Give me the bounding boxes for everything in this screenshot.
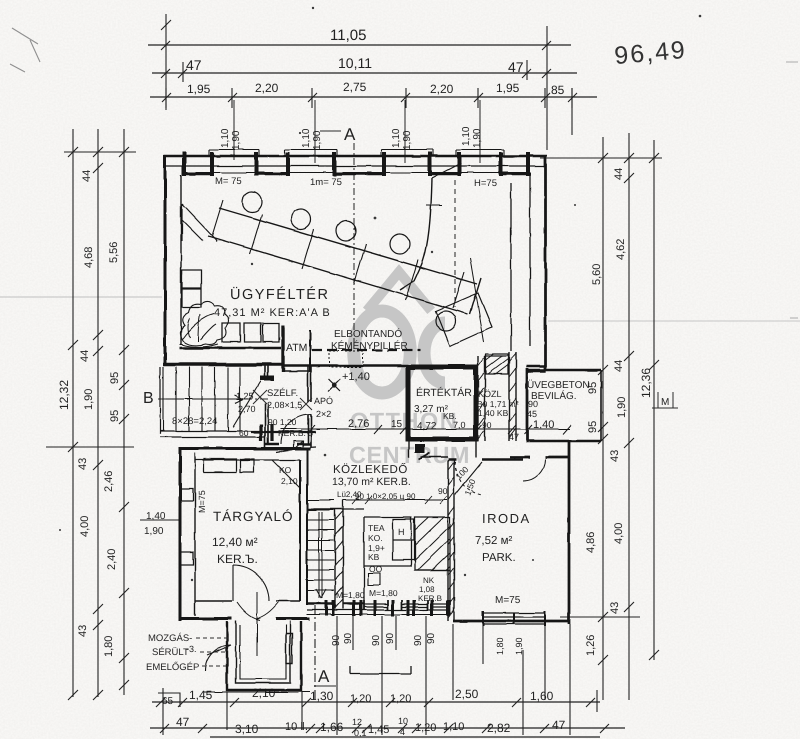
tick row y158 — [540, 157, 662, 159]
edge marks right — [786, 62, 798, 318]
svg-text:2×2: 2×2 — [316, 409, 331, 419]
stair arrow — [316, 589, 326, 598]
svg-text:1m= 75: 1m= 75 — [310, 177, 342, 188]
svg-text:90: 90 — [385, 632, 396, 644]
svg-text:1,45: 1,45 — [368, 724, 389, 736]
svg-text:1,95: 1,95 — [496, 81, 520, 95]
ticks x124 — [119, 345, 129, 663]
mid dim line y429 — [281, 428, 570, 430]
dim line 10,11 — [152, 72, 577, 74]
svg-text:1,80: 1,80 — [103, 636, 115, 657]
svg-text:4,72: 4,72 — [417, 421, 437, 432]
svg-text:65: 65 — [162, 696, 174, 707]
svg-text:12,32: 12,32 — [57, 380, 71, 410]
desk parallelogram — [436, 293, 492, 346]
tick row y617 — [560, 616, 640, 618]
wc room hatched — [415, 517, 450, 570]
right wall bottom step — [526, 366, 546, 371]
svg-text:2,10: 2,10 — [281, 476, 298, 486]
svg-text:11,05: 11,05 — [330, 27, 366, 44]
targyalo right wall — [300, 448, 307, 605]
left chain verticals — [73, 129, 124, 697]
svg-text:1,08: 1,08 — [419, 585, 435, 594]
svg-text:TÁRGYALÓ: TÁRGYALÓ — [213, 509, 294, 524]
svg-text:47: 47 — [509, 432, 519, 442]
window dim verticals — [234, 100, 480, 163]
svg-text:KÖZL: KÖZL — [478, 389, 502, 399]
svg-text:2,46: 2,46 — [103, 471, 115, 492]
svg-text:10 ‖.: 10 ‖. — [285, 721, 308, 733]
szelf room walls — [265, 366, 268, 447]
iroda left wall hatched — [448, 460, 454, 621]
svg-text:1,40: 1,40 — [533, 419, 554, 431]
scan artifact top-left — [10, 28, 40, 72]
counter band — [219, 208, 477, 284]
right wall inner lines — [511, 173, 530, 351]
svg-text:1,90: 1,90 — [144, 526, 164, 537]
svg-text:ÜGYFÉLTÉR: ÜGYFÉLTÉR — [230, 286, 329, 303]
svg-text:ÉRTÉKTÁR: ÉRTÉKTÁR — [416, 386, 472, 399]
three chairs row — [222, 323, 279, 342]
svg-text:90: 90 — [413, 634, 424, 646]
H cabinets — [393, 519, 414, 560]
svg-text:2,20: 2,20 — [430, 82, 454, 96]
svg-text:MOZGÁS-: MOZGÁS- — [148, 632, 192, 644]
ticks x654 — [649, 360, 659, 660]
svg-text:47,31 M² KER:A'A B: 47,31 M² KER:A'A B — [214, 307, 331, 319]
svg-text:90: 90 — [482, 420, 492, 430]
svg-text:1,90: 1,90 — [472, 128, 483, 148]
svg-text:IRODA: IRODA — [482, 511, 531, 526]
svg-text:43: 43 — [77, 625, 89, 637]
svg-text:M=1,80: M=1,80 — [369, 588, 398, 598]
svg-text:43: 43 — [609, 450, 621, 462]
svg-text:10: 10 — [398, 716, 408, 726]
corridor small dim row — [343, 499, 447, 501]
svg-text:KO.: KO. — [368, 533, 383, 543]
svg-text:4,00: 4,00 — [613, 523, 625, 544]
dim extension line left x166 — [165, 14, 167, 110]
svg-text:44: 44 — [613, 168, 625, 180]
svg-text:NK: NK — [423, 576, 435, 585]
tick 47 right — [526, 60, 528, 80]
svg-text:4: 4 — [400, 727, 405, 737]
svg-text:TEA: TEA — [368, 523, 385, 533]
bottom dim line 1 — [152, 701, 600, 703]
kozl shaft walls — [478, 352, 516, 441]
svg-text:KER.Ъ.: KER.Ъ. — [217, 552, 258, 566]
svg-text:7,0: 7,0 — [453, 420, 466, 430]
svg-text:1,90: 1,90 — [312, 130, 323, 150]
svg-text:5,56: 5,56 — [108, 242, 120, 263]
svg-text:47: 47 — [176, 715, 190, 729]
tea room walls — [364, 517, 412, 600]
svg-text:M= 75: M= 75 — [215, 176, 242, 187]
svg-text:2,08×1,5: 2,08×1,5 — [267, 400, 302, 410]
svg-text:1,90: 1,90 — [514, 637, 524, 655]
uvegbeton right wall — [600, 370, 602, 441]
svg-text:47: 47 — [186, 57, 202, 73]
top wall outer — [164, 155, 547, 158]
left wall inner — [180, 175, 182, 345]
svg-text:SÉRÜLT: SÉRÜLT — [152, 646, 189, 658]
svg-text:1,90: 1,90 — [402, 130, 413, 150]
ground line below lift — [204, 691, 310, 693]
svg-text:2,20: 2,20 — [255, 81, 279, 95]
svg-text:OO: OO — [369, 564, 383, 574]
svg-text:1,60: 1,60 — [530, 689, 554, 703]
svg-text:5,60: 5,60 — [591, 264, 603, 285]
ticks x98 — [93, 163, 103, 630]
svg-text:2,70: 2,70 — [238, 404, 256, 414]
iroda window — [483, 613, 545, 624]
nk room small — [415, 570, 450, 600]
svg-text:0,1: 0,1 — [354, 728, 367, 738]
stools circles — [242, 192, 262, 212]
bottom dim line 2 — [150, 727, 625, 729]
svg-text:1,90: 1,90 — [616, 397, 628, 418]
faint fold line left — [0, 296, 162, 298]
svg-text:ÜVEGBETON: ÜVEGBETON — [527, 379, 590, 391]
lift outer — [227, 621, 301, 690]
ticks line1 — [156, 698, 595, 707]
svg-text:1,10: 1,10 — [391, 128, 402, 148]
svg-text:A: A — [318, 667, 330, 686]
svg-text:95: 95 — [109, 372, 121, 384]
svg-text:1,95: 1,95 — [187, 82, 211, 96]
svg-text:M=1,80: M=1,80 — [336, 590, 365, 600]
speckle rubble rect — [329, 351, 363, 367]
svg-text:M=75: M=75 — [197, 490, 207, 513]
kozlekedo upper boundary walls — [343, 500, 364, 509]
shelf squares left — [182, 270, 201, 307]
svg-text:44: 44 — [79, 350, 91, 362]
svg-text:90: 90 — [343, 632, 354, 644]
right wall outer — [544, 155, 547, 369]
svg-text:1,66: 1,66 — [320, 720, 344, 734]
svg-text:90: 90 — [371, 634, 382, 646]
svg-text:1,40 KB: 1,40 KB — [478, 408, 509, 418]
svg-text:PARK.: PARK. — [482, 552, 516, 564]
svg-text:2,75: 2,75 — [343, 80, 367, 94]
65 box — [158, 693, 180, 707]
svg-text:1,80: 1,80 — [495, 637, 505, 655]
svg-text:90: 90 — [426, 632, 437, 644]
entry stairs — [160, 367, 265, 437]
svg-text:12,36: 12,36 — [639, 368, 653, 398]
lower block: targyalo walls — [179, 447, 182, 621]
dim extension line x572 — [571, 88, 573, 135]
svg-text:APÓ: APÓ — [314, 396, 333, 406]
svg-text:ATM: ATM — [286, 342, 307, 354]
dashed elbontando line — [312, 349, 420, 351]
right chain verticals — [603, 133, 654, 700]
landing step below corridor — [350, 666, 411, 674]
szelf bottom door arc — [281, 414, 311, 444]
svg-text:4,68: 4,68 — [83, 247, 95, 268]
svg-text:1,20: 1,20 — [350, 693, 371, 705]
svg-text:A: A — [344, 125, 356, 144]
dim extension line right x547 — [546, 26, 548, 150]
targyalo door arc — [233, 565, 269, 601]
svg-text:1,30: 1,30 — [310, 689, 334, 703]
dim line segments row — [150, 96, 597, 98]
svg-text:1,10: 1,10 — [461, 126, 472, 146]
ticks x73 — [68, 340, 129, 700]
bottom dim line 3 partial — [210, 736, 600, 738]
stray specks — [59, 7, 701, 581]
uvegbeton top wall — [526, 369, 601, 372]
bottom-left wall upper block — [163, 363, 282, 366]
curved partition right — [400, 178, 432, 290]
tick row y152 — [64, 151, 136, 153]
svg-text:M=75: M=75 — [495, 595, 521, 606]
svg-text:2,76: 2,76 — [348, 418, 369, 430]
ticks row3 — [161, 41, 577, 108]
corridor bottom wall — [307, 602, 335, 605]
svg-text:4,86: 4,86 — [585, 532, 597, 553]
svg-text:2,50: 2,50 — [455, 687, 479, 701]
svg-text:1,10: 1,10 — [220, 128, 231, 148]
svg-text:1,26: 1,26 — [585, 635, 597, 656]
svg-text:15: 15 — [391, 419, 403, 430]
wall pillars left — [181, 489, 193, 565]
svg-text:85: 85 — [551, 83, 565, 97]
svg-text:10,11: 10,11 — [338, 55, 372, 71]
svg-text:8×28=2,24: 8×28=2,24 — [172, 416, 217, 427]
svg-text:47: 47 — [508, 59, 524, 75]
svg-text:90: 90 — [438, 486, 448, 496]
stair center rail — [319, 512, 322, 598]
svg-text:2,82: 2,82 — [487, 721, 511, 735]
svg-text:1,40: 1,40 — [146, 511, 166, 522]
svg-text:1,90: 1,90 — [231, 130, 242, 150]
wall above vault — [282, 364, 408, 367]
svg-text:3,10: 3,10 — [235, 722, 259, 736]
targyalo bottom wall — [180, 617, 232, 620]
window jambs — [184, 152, 528, 176]
left triangle brace — [182, 204, 217, 241]
svg-text:60: 60 — [239, 428, 249, 438]
svg-text:12,40 м²: 12,40 м² — [212, 535, 258, 549]
svg-text:KER.B: KER.B — [418, 594, 442, 603]
dim line 11,05 — [148, 44, 571, 46]
tick row y447 — [46, 446, 134, 448]
svg-text:KB: KB — [368, 552, 380, 562]
interior stair walls — [306, 496, 308, 605]
svg-text:47: 47 — [552, 718, 566, 732]
iroda top wall — [510, 456, 570, 459]
svg-text:1,10: 1,10 — [443, 721, 464, 733]
svg-text:1,25: 1,25 — [236, 391, 254, 401]
window sills — [209, 150, 504, 156]
top wall mid line — [165, 165, 546, 167]
svg-text:KER.B. 5: KER.B. 5 — [278, 428, 313, 438]
svg-text:ELBONTANDÓ: ELBONTANDÓ — [334, 328, 402, 340]
svg-text:1,90: 1,90 — [83, 389, 95, 410]
svg-text:B: B — [143, 390, 154, 407]
stairs arrow — [166, 395, 243, 403]
lift door arc — [205, 645, 231, 671]
tick 47 left — [182, 62, 184, 82]
svg-text:4,00: 4,00 — [79, 516, 91, 537]
left 1,40 dim tick — [140, 519, 180, 521]
svg-text:12: 12 — [352, 717, 362, 727]
svg-text:KÖZLEKEDŐ: KÖZLEKEDŐ — [333, 463, 408, 476]
iroda bottom wall — [453, 620, 570, 623]
svg-text:7,52 м²: 7,52 м² — [475, 535, 512, 547]
left wall — [164, 155, 167, 366]
svg-text:45: 45 — [527, 409, 537, 419]
ledge line — [180, 347, 281, 349]
svg-text:90: 90 — [331, 634, 342, 646]
corridor bottom windows — [364, 604, 450, 607]
vault ERTEKTAR heavy walls — [408, 367, 476, 439]
svg-text:KO: KO — [279, 465, 292, 475]
svg-text:1,10: 1,10 — [301, 128, 312, 148]
ticks line2 — [160, 724, 609, 733]
small sq in tea — [368, 573, 380, 585]
svg-text:1,45: 1,45 — [189, 688, 213, 702]
svg-text:44: 44 — [81, 170, 93, 182]
ticks x629 — [624, 173, 634, 612]
svg-text:+1,40: +1,40 — [342, 371, 370, 383]
uvegbeton bottom wall — [526, 440, 601, 443]
svg-text:2,40: 2,40 — [106, 549, 118, 570]
svg-text:KÉMÉNYPILLÉR: KÉMÉNYPILLÉR — [331, 340, 408, 352]
doors near corridor top: diagonal KO — [272, 460, 300, 488]
svg-text:90: 90 — [528, 399, 538, 409]
svg-text:1,20: 1,20 — [415, 722, 436, 734]
svg-text:90 1,20: 90 1,20 — [268, 417, 297, 427]
bottom extension verticals — [163, 616, 597, 735]
lift right small rect — [286, 634, 292, 664]
svg-text:43: 43 — [609, 602, 621, 614]
svg-text:H: H — [398, 527, 405, 537]
iroda right wall — [568, 441, 571, 624]
svg-text:EMELŐGÉP: EMELŐGÉP — [146, 661, 199, 673]
ticks x603 — [598, 365, 608, 665]
ATM room — [281, 325, 284, 372]
watermark logo OC — [349, 272, 470, 468]
svg-text:44: 44 — [613, 360, 625, 372]
sun symbol — [328, 379, 340, 391]
plant — [180, 301, 229, 345]
svg-text:43: 43 — [77, 458, 89, 470]
svg-text:M: M — [661, 397, 669, 408]
svg-text:95: 95 — [109, 410, 121, 422]
svg-text:1,20: 1,20 — [390, 693, 411, 705]
A section dashdot bottom — [314, 605, 316, 700]
interior stair treads — [308, 500, 334, 590]
svg-text:4,62: 4,62 — [615, 239, 627, 260]
top wall inner segments — [182, 173, 531, 176]
svg-text:95: 95 — [587, 421, 599, 433]
svg-text:90 1,0×2,05 ц 90: 90 1,0×2,05 ц 90 — [355, 492, 416, 501]
svg-text:SZÉLF.: SZÉLF. — [267, 387, 298, 399]
svg-text:H=75: H=75 — [474, 178, 497, 189]
chimney hatch box — [486, 354, 508, 374]
targyalo furniture — [204, 459, 236, 472]
svg-text:2,10: 2,10 — [252, 686, 276, 700]
faint fold line right — [548, 320, 800, 322]
svg-text:13,70 m² KER.B.: 13,70 m² KER.B. — [332, 476, 411, 488]
